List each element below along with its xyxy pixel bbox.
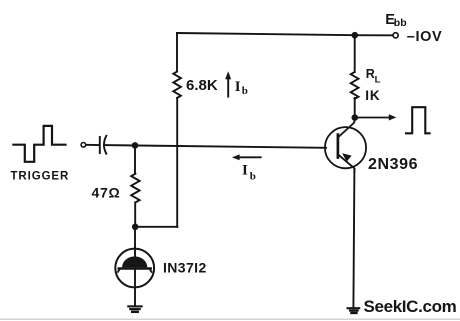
input terminal circle [81, 143, 86, 148]
6.8K branch vertical wire top segment [176, 33, 178, 72]
bottom edge line [0, 319, 460, 320]
svg-text:IK: IK [365, 88, 380, 103]
top supply rail wire [177, 33, 355, 35]
svg-text:TRIGGER: TRIGGER [11, 170, 70, 182]
tunnel diode base bar [119, 267, 151, 270]
capacitor C1 curved plate [104, 136, 106, 154]
jog wire node to 6.8K branch [135, 226, 177, 228]
svg-text:–IOV: –IOV [407, 29, 442, 45]
transistor base bar [337, 135, 340, 158]
svg-text:IN37I2: IN37I2 [163, 260, 207, 276]
wire rail node to RL [354, 35, 356, 72]
svg-text:bb: bb [394, 17, 407, 29]
svg-text:47Ω: 47Ω [92, 185, 121, 201]
svg-text:I: I [242, 162, 248, 178]
svg-text:SeekIC.com: SeekIC.com [364, 297, 457, 316]
resistor 47 ohm zigzag [131, 174, 139, 203]
transistor Q1 circle [325, 127, 366, 168]
svg-text:b: b [250, 170, 256, 182]
svg-text:R: R [366, 67, 375, 81]
transistor collector lead [338, 118, 355, 138]
resistor RL zigzag [351, 72, 359, 99]
wire inside diode top [134, 248, 136, 257]
wire diode to ground [134, 270, 136, 306]
base wire capacitor to transistor [105, 145, 327, 148]
Ib arrow up (beside 6.8K) [227, 79, 229, 97]
tunnel diode bar end ticks [118, 270, 152, 272]
trigger input waveform [13, 126, 65, 162]
wire RL to collector node [354, 98, 356, 118]
ground symbol left [128, 305, 141, 307]
wire node to diode [134, 227, 136, 248]
svg-text:L: L [375, 74, 381, 85]
output arrowhead [389, 114, 397, 120]
wire rail to supply terminal [355, 34, 393, 36]
wire terminal to capacitor [86, 144, 99, 146]
svg-text:6.8K: 6.8K [186, 77, 218, 94]
wire node to 47-ohm resistor [134, 145, 136, 173]
svg-text:2N396: 2N396 [368, 156, 418, 173]
transistor emitter arrowhead (PNP) [342, 153, 351, 161]
svg-text:I: I [235, 79, 241, 95]
resistor 6.8K zigzag [173, 72, 181, 98]
node dot at collector [352, 114, 359, 121]
6.8K branch vertical wire bottom segment [176, 98, 178, 227]
emitter wire to ground [353, 170, 354, 308]
node dot at 47-ohm / diode junction [132, 224, 139, 231]
tunnel diode 1N3712 circle [115, 249, 154, 288]
wire 47-ohm to bottom node [134, 202, 136, 226]
transistor emitter lead [338, 154, 355, 172]
output arrow line [358, 117, 390, 119]
ground symbol right [348, 307, 360, 309]
capacitor C1 flat plate [99, 137, 101, 153]
svg-text:b: b [242, 85, 248, 97]
output pulse waveform [406, 107, 430, 133]
tunnel diode dome element [122, 256, 147, 267]
supply terminal circle Ebb [393, 33, 398, 38]
Ib arrow left (on base wire) [239, 156, 261, 158]
node dot at capacitor/47-ohm junction [132, 142, 139, 149]
node dot at supply rail / RL junction [352, 32, 359, 39]
